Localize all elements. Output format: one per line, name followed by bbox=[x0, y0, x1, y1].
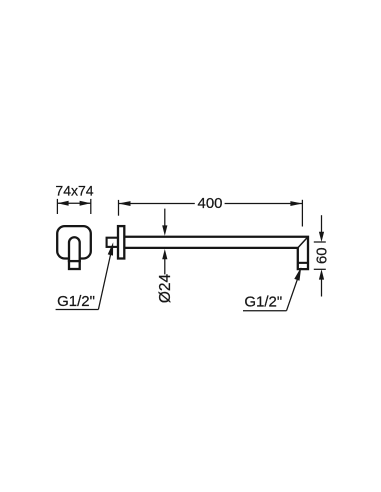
dimension line left segment bbox=[119, 203, 195, 205]
leader line bbox=[98, 254, 110, 310]
down arrowhead to arm centreline bbox=[319, 232, 324, 242]
right extension tick bbox=[90, 199, 92, 214]
svg-text:G1/2": G1/2" bbox=[244, 293, 282, 310]
top reference tick (arm centreline) bbox=[314, 241, 326, 243]
side view outlet nut divider bbox=[298, 262, 308, 264]
left extension line bbox=[118, 200, 120, 216]
side view wall thread stub bbox=[107, 238, 118, 247]
dimension 400 bbox=[119, 195, 303, 226]
dimension Ø24 bbox=[157, 209, 174, 304]
side view flange plate bbox=[118, 226, 124, 258]
front view outlet nut bbox=[69, 261, 80, 269]
bottom reference tick (nut bottom) bbox=[314, 268, 326, 270]
svg-text:74x74: 74x74 bbox=[55, 183, 93, 199]
upper line from 400 dimension down to arm bbox=[164, 209, 166, 227]
left extension tick bbox=[56, 199, 58, 214]
svg-text:60: 60 bbox=[314, 247, 331, 264]
up arrowhead on arm bottom bbox=[162, 249, 167, 259]
svg-text:G1/2": G1/2" bbox=[57, 293, 95, 310]
leader arrowhead bbox=[108, 242, 114, 255]
dimension line right segment bbox=[225, 203, 303, 205]
svg-text:Ø24: Ø24 bbox=[157, 273, 174, 303]
dimension line bbox=[57, 202, 90, 204]
right arrowhead bbox=[290, 201, 302, 206]
underline bbox=[243, 310, 287, 312]
lower line below arm bbox=[164, 259, 166, 275]
front view arm tube (end-on, stadium shape) bbox=[69, 237, 80, 261]
leader arrowhead bbox=[294, 267, 301, 281]
underline bbox=[56, 309, 99, 311]
leader line bbox=[287, 279, 298, 311]
up arrowhead to nut bottom bbox=[319, 269, 324, 279]
side view arm outline (horizontal tube with right-angle drop) bbox=[124, 237, 308, 269]
right arrowhead bbox=[80, 201, 91, 206]
right extension line bbox=[301, 200, 303, 227]
front view flange plate (rounded square 74x74) bbox=[57, 226, 91, 258]
left arrowhead bbox=[57, 201, 68, 206]
down arrowhead on arm top bbox=[162, 225, 167, 235]
dimension 60 bbox=[314, 215, 331, 296]
label G1/2 left with leader bbox=[56, 242, 114, 310]
upper approach line bbox=[321, 215, 323, 233]
lower tail line bbox=[321, 279, 323, 297]
svg-text:400: 400 bbox=[197, 195, 222, 212]
label G1/2 right with leader bbox=[243, 267, 301, 311]
side view corner miter line bbox=[298, 237, 308, 248]
dimension 74x74 bbox=[55, 183, 93, 214]
left arrowhead bbox=[119, 201, 131, 206]
